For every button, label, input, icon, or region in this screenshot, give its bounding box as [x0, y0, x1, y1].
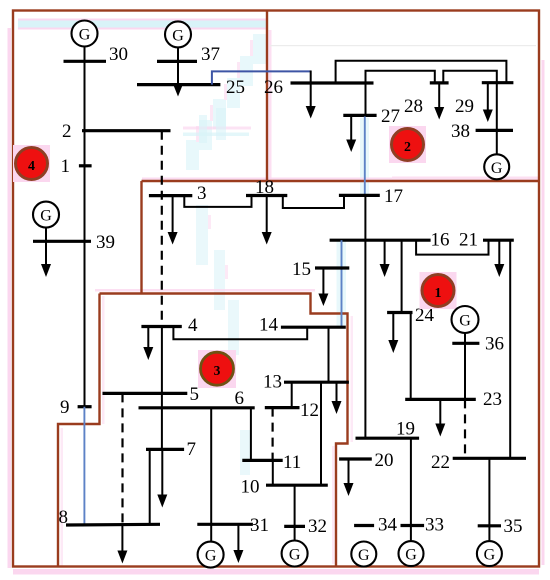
- bus 36: [452, 342, 479, 345]
- bus 34: [354, 524, 374, 527]
- svg-text:20: 20: [375, 450, 394, 471]
- svg-text:2: 2: [404, 140, 411, 155]
- bus 37: [157, 60, 197, 63]
- dashed line 23-22: [464, 399, 466, 458]
- load arrow at bus 24: [388, 313, 398, 354]
- bus 26: [291, 81, 374, 84]
- load arrow at bus 4: [143, 327, 153, 361]
- bus 23: [405, 398, 476, 401]
- bus 7: [146, 448, 184, 451]
- svg-text:7: 7: [187, 439, 197, 460]
- svg-text:32: 32: [308, 516, 327, 537]
- svg-text:G: G: [459, 313, 471, 330]
- svg-text:1: 1: [61, 156, 71, 177]
- load arrow at bus 28: [434, 83, 444, 120]
- load arrow at bus 18: [262, 196, 272, 245]
- wire 16-15-14 (blue): [341, 240, 343, 327]
- svg-text:4: 4: [28, 159, 35, 174]
- svg-text:G: G: [484, 547, 496, 564]
- wire 16-24: [401, 240, 403, 312]
- svg-text:33: 33: [425, 515, 444, 536]
- wire 26-27 riser and 26-28: [366, 71, 435, 116]
- dashed line 12-11: [272, 408, 274, 461]
- dashed line 2-3-4: [161, 131, 163, 327]
- wire 3-18: [184, 196, 251, 207]
- bus 31: [197, 523, 253, 526]
- zone 3 left border upper: [140, 181, 142, 294]
- svg-text:39: 39: [96, 232, 115, 253]
- bus 12: [265, 406, 300, 409]
- wire 13-12: [291, 382, 293, 407]
- svg-text:5: 5: [190, 384, 200, 405]
- load arrow at bus 13: [332, 382, 342, 414]
- bus 35: [478, 524, 501, 527]
- svg-text:4: 4: [188, 315, 198, 336]
- svg-text:9: 9: [60, 397, 70, 418]
- generator G at bus 36: [452, 306, 479, 333]
- svg-text:21: 21: [459, 230, 478, 251]
- generator G at bus 31: [198, 542, 224, 568]
- svg-text:12: 12: [300, 400, 319, 421]
- zone divider vertical (zone4 / zone2): [266, 11, 268, 182]
- svg-text:37: 37: [201, 44, 220, 65]
- svg-text:8: 8: [59, 507, 69, 528]
- wire 14-13: [328, 327, 330, 382]
- bus 17: [339, 194, 380, 197]
- svg-text:G: G: [491, 160, 503, 177]
- svg-text:15: 15: [292, 259, 311, 280]
- wire 13-10: [320, 382, 322, 485]
- svg-text:G: G: [289, 547, 301, 564]
- bus 39: [33, 240, 91, 243]
- bus 13: [284, 381, 349, 384]
- load arrow at bus 20: [344, 459, 354, 496]
- zone 3 staircase border top-right: [100, 294, 348, 567]
- wire 19-33-G: [410, 438, 412, 541]
- bus 4: [141, 325, 181, 328]
- generator G at bus 34: [351, 542, 376, 567]
- load arrow at bus 16: [380, 240, 390, 277]
- bus 11: [242, 459, 282, 462]
- bus 33: [401, 524, 425, 527]
- wire 29-38-G: [496, 83, 498, 155]
- svg-text:G: G: [40, 208, 52, 225]
- wire 18-17: [283, 195, 344, 208]
- load arrow at bus 27: [346, 115, 356, 152]
- svg-text:25: 25: [226, 77, 245, 98]
- svg-text:34: 34: [378, 515, 398, 536]
- load arrow at bus 3: [168, 196, 178, 245]
- generator G at bus 39: [33, 202, 59, 228]
- wire 9-8 (blue): [83, 407, 85, 525]
- wire 7-8: [149, 449, 151, 525]
- load arrow at bus 31: [233, 524, 243, 563]
- svg-text:36: 36: [485, 334, 504, 355]
- svg-text:G: G: [405, 547, 417, 564]
- bus 22: [453, 457, 526, 460]
- load arrow at bus 39: [41, 241, 51, 277]
- bus 25: [137, 83, 220, 86]
- arrow from G37 through bus 25: [173, 47, 183, 96]
- bus 29: [482, 81, 514, 84]
- svg-text:26: 26: [264, 77, 283, 98]
- bus 5: [103, 392, 188, 395]
- svg-text:16: 16: [431, 230, 450, 251]
- wire 26-29 upper: [336, 61, 507, 83]
- svg-text:3: 3: [214, 363, 221, 378]
- wire 16-19: [364, 240, 366, 438]
- generator G at bus 38: [484, 154, 509, 179]
- load arrow at bus 7: [157, 449, 167, 507]
- bus 18: [246, 194, 287, 197]
- generator G at bus 37: [165, 21, 191, 47]
- wire 16-21: [416, 240, 488, 254]
- svg-text:29: 29: [455, 96, 474, 117]
- svg-text:G: G: [172, 27, 184, 44]
- svg-text:19: 19: [396, 419, 415, 440]
- wire 4-5-6-7 trunk: [161, 327, 163, 450]
- svg-text:14: 14: [259, 315, 279, 336]
- svg-text:G: G: [79, 27, 91, 44]
- wire 28-29: [443, 71, 497, 83]
- bus 27: [343, 114, 376, 117]
- wire 25-26 (navy): [212, 71, 311, 84]
- wire 24-23: [410, 313, 412, 400]
- svg-text:17: 17: [384, 186, 403, 207]
- svg-text:31: 31: [250, 515, 269, 536]
- bus 3: [149, 194, 192, 197]
- svg-text:2: 2: [62, 121, 72, 142]
- svg-text:1: 1: [435, 286, 442, 301]
- bus 10: [266, 484, 328, 487]
- bus 19: [356, 437, 420, 440]
- bus 8: [66, 523, 160, 527]
- svg-text:35: 35: [504, 516, 523, 537]
- wire 6-31-G: [210, 408, 212, 542]
- bus 2: [82, 129, 171, 132]
- svg-text:30: 30: [109, 44, 128, 65]
- zone label circle 3: [198, 350, 236, 388]
- wire 10-32: [294, 485, 296, 540]
- bus 32: [284, 525, 305, 528]
- load arrow at bus 29: [483, 83, 493, 122]
- bus 9: [78, 405, 92, 408]
- svg-text:22: 22: [431, 452, 450, 473]
- bus 30: [64, 60, 107, 63]
- wire 22-35: [488, 458, 490, 541]
- bus 21: [483, 239, 514, 242]
- svg-text:3: 3: [197, 183, 207, 204]
- svg-text:28: 28: [404, 96, 423, 117]
- dashed line 5-8: [121, 393, 123, 525]
- wire G39 to bus 39: [45, 228, 47, 242]
- svg-text:G: G: [205, 548, 217, 565]
- load arrow at bus 23: [435, 399, 445, 436]
- zone label circle 1: [420, 272, 457, 309]
- generator G at bus 33: [399, 541, 424, 566]
- bus 24: [387, 311, 412, 314]
- load arrow at bus 8: [117, 524, 127, 563]
- zone divider horizontal y181: [142, 180, 539, 182]
- svg-text:13: 13: [263, 372, 282, 393]
- bus 14: [281, 326, 346, 329]
- zone label circle 2: [389, 126, 426, 163]
- wire 11-10: [272, 460, 274, 485]
- load arrow at bus 26: [306, 71, 316, 119]
- load arrow at bus 15: [318, 268, 328, 306]
- bus 15: [315, 266, 349, 269]
- svg-text:38: 38: [451, 121, 470, 142]
- wire 4-14: [173, 327, 307, 340]
- bus 38: [476, 129, 513, 132]
- bus 20: [339, 457, 372, 460]
- wire 27-17 (blue): [364, 117, 366, 196]
- svg-text:23: 23: [483, 389, 502, 410]
- svg-text:27: 27: [381, 106, 400, 127]
- bus 28: [430, 81, 449, 84]
- load arrow at bus 21: [494, 240, 504, 277]
- wire 17-16: [364, 195, 366, 240]
- bus 1: [79, 164, 92, 167]
- svg-text:G: G: [358, 547, 370, 564]
- wire 21-22: [509, 240, 511, 458]
- svg-text:18: 18: [255, 177, 274, 198]
- bus 16: [330, 239, 431, 242]
- svg-text:10: 10: [241, 477, 260, 498]
- wire main left trunk 30-2-1-39-9: [84, 47, 86, 407]
- generator G at bus 30: [72, 21, 98, 47]
- generator G at bus 35: [477, 541, 502, 566]
- zone 3 staircase border left: [58, 294, 100, 567]
- bus 6: [139, 406, 255, 409]
- zone label circle 4: [13, 145, 50, 182]
- wire 6-11: [250, 408, 252, 461]
- svg-text:11: 11: [283, 452, 301, 473]
- svg-text:6: 6: [235, 388, 245, 409]
- generator G at bus 32: [282, 541, 308, 567]
- wire G36-36-23: [464, 333, 466, 399]
